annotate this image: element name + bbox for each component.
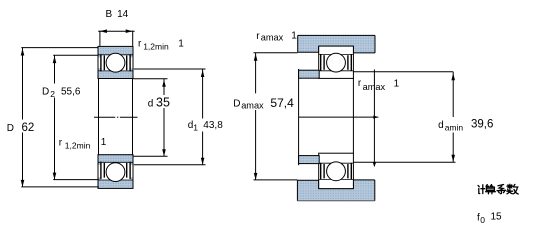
svg-text:1,2min: 1,2min <box>143 41 169 51</box>
svg-text:amax: amax <box>363 82 386 92</box>
svg-text:d: d <box>438 120 444 131</box>
svg-text:r: r <box>59 137 63 148</box>
svg-text:39,6: 39,6 <box>471 119 493 131</box>
svg-text:14: 14 <box>117 9 129 20</box>
svg-text:amin: amin <box>445 123 464 133</box>
svg-text:r: r <box>256 31 260 42</box>
svg-text:1: 1 <box>394 78 400 89</box>
svg-text:1: 1 <box>291 31 297 42</box>
svg-text:1: 1 <box>178 39 184 50</box>
svg-text:D: D <box>7 123 14 134</box>
svg-text:amax: amax <box>241 101 264 111</box>
svg-text:1: 1 <box>101 137 107 148</box>
svg-text:15: 15 <box>491 212 503 223</box>
svg-text:55,6: 55,6 <box>61 86 81 97</box>
svg-text:43,8: 43,8 <box>203 120 223 131</box>
svg-text:B: B <box>106 9 113 20</box>
svg-text:D: D <box>42 86 49 97</box>
svg-text:0: 0 <box>480 215 485 225</box>
svg-text:d: d <box>148 98 154 109</box>
svg-text:D: D <box>233 98 240 109</box>
svg-text:r: r <box>358 78 362 89</box>
svg-text:1: 1 <box>193 123 198 133</box>
svg-text:amax: amax <box>261 32 284 42</box>
svg-text:1,2min: 1,2min <box>65 141 91 151</box>
svg-text:62: 62 <box>22 122 35 134</box>
svg-text:r: r <box>138 39 142 50</box>
svg-text:57,4: 57,4 <box>270 96 294 110</box>
svg-text:35: 35 <box>156 96 170 110</box>
svg-text:2: 2 <box>50 89 55 99</box>
